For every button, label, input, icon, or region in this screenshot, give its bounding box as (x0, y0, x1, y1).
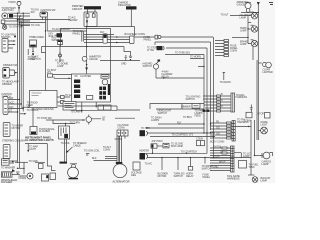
wire from C100 right (134, 36, 213, 38)
svg-text:RLY: RLY (177, 121, 182, 124)
wire jog y123.5 (53, 120, 75, 124)
svg-text:LIGHT: LIGHT (261, 124, 268, 127)
svg-text:SWITCH: SWITCH (158, 112, 168, 115)
relay K1 (17, 2, 21, 6)
svg-text:LAMP: LAMP (240, 43, 247, 46)
wire y54 (165, 54, 204, 56)
alt wires (105, 157, 117, 159)
cluster feed wire (86, 27, 88, 81)
connector stack0 (203, 93, 235, 112)
drop x96 (95, 102, 97, 108)
wire a (53, 74, 72, 76)
wire drop (155, 69, 157, 78)
svg-text:CONN: CONN (19, 176, 27, 180)
svg-text:REG: REG (131, 174, 136, 177)
right edge mark (269, 3, 273, 5)
drop x82 (81, 102, 83, 112)
arrow junction (18, 7, 20, 10)
svg-text:WIPER: WIPER (52, 39, 60, 42)
bus2 (206, 48, 208, 154)
wire y39.5 (84, 39, 130, 41)
wire below cluster (58, 105, 117, 107)
wire dashes right of F (92, 117, 135, 120)
arrow (12, 169, 15, 172)
svg-text:TO WASHER: TO WASHER (1, 166, 15, 169)
svg-text:CONN: CONN (103, 149, 110, 152)
svg-text:CIRCUIT: CIRCUIT (72, 7, 83, 11)
diode symbol (85, 68, 88, 71)
bus y26 (61, 28, 111, 30)
svg-text:TO TURN SIG: TO TURN SIG (175, 52, 190, 55)
tick (181, 104, 183, 109)
connector stackA (210, 120, 235, 141)
wire y157.6 long (147, 157, 251, 159)
wire leg3 (46, 17, 48, 31)
stub (248, 22, 251, 24)
M1 pins (57, 96, 70, 104)
connector bar J2 (126, 6, 137, 9)
bus3 (210, 42, 212, 130)
stub mark (220, 73, 231, 85)
wire y78 (156, 77, 204, 79)
radio box (63, 102, 76, 111)
svg-text:TO BUS: TO BUS (183, 116, 192, 119)
connector C3 (3, 97, 8, 115)
bus y24 (87, 26, 135, 28)
svg-text:TO TURN: TO TURN (70, 122, 81, 125)
node dots (17, 13, 24, 25)
svg-text:FEED: FEED (195, 114, 202, 117)
lamp L3 (247, 37, 257, 47)
small box (39, 164, 44, 169)
stackB right tie (234, 153, 251, 159)
svg-text:LAMP: LAMP (57, 65, 64, 68)
svg-text:PANEL: PANEL (73, 33, 81, 36)
collar (116, 162, 123, 164)
small box right (265, 113, 271, 119)
svg-text:MOTOR: MOTOR (158, 175, 167, 178)
svg-text:TO IGN COIL: TO IGN COIL (84, 149, 100, 153)
node dots ign (17, 19, 22, 26)
wire y45.2 (42, 29, 125, 47)
svg-text:TANK: TANK (249, 166, 256, 169)
svg-text:R: R (221, 105, 223, 108)
stackB pin labels (213, 145, 226, 168)
stair boxes (42, 173, 56, 181)
ground sym (16, 172, 19, 174)
svg-text:DIMMER: DIMMER (2, 83, 12, 86)
wire y48 (166, 47, 207, 49)
wire (21, 106, 28, 108)
svg-text:CONN: CONN (118, 126, 125, 129)
wire run y25.4 (21, 24, 30, 26)
svg-text:HEATER: HEATER (68, 19, 78, 22)
arrowheads (116, 36, 118, 43)
bracket connector (82, 32, 84, 42)
wire y126 (158, 123, 204, 125)
ammeter A (245, 3, 251, 9)
svg-text:WASHER: WASHER (1, 180, 12, 183)
svg-text:FLASHER: FLASHER (39, 130, 50, 133)
hazard switch (153, 60, 160, 70)
svg-text:LAMPS: LAMPS (151, 119, 159, 122)
body label dark (227, 174, 240, 181)
arrow mark (86, 26, 87, 27)
wire run y19.6 (18, 19, 71, 21)
svg-text:RH TAIL: RH TAIL (213, 145, 222, 148)
svg-text:MOTOR: MOTOR (12, 127, 21, 130)
node (152, 153, 187, 154)
svg-text:CLUSTER: CLUSTER (80, 75, 91, 78)
arrow on y78 (163, 77, 165, 79)
svg-text:SWITCH: SWITCH (186, 98, 196, 101)
svg-text:BKUP: BKUP (219, 160, 226, 163)
svg-text:BAT: BAT (9, 97, 14, 100)
svg-text:LAMP: LAMP (240, 30, 247, 33)
wire drop x19.4 (18, 16, 20, 169)
top right small box (196, 138, 205, 146)
svg-text:RELAY: RELAY (162, 76, 170, 79)
cluster upper box (88, 9, 96, 12)
top right box (101, 75, 109, 78)
svg-text:STEERING COLUMN: STEERING COLUMN (2, 140, 25, 143)
svg-text:CONN: CONN (196, 138, 203, 141)
svg-text:LAMP: LAMP (261, 179, 268, 182)
wire run y31 (47, 30, 86, 32)
svg-text:PK: PK (216, 120, 220, 123)
svg-text:TO COIL: TO COIL (31, 24, 41, 27)
wires x251 x254 (251, 120, 255, 175)
connector C1 (2, 39, 8, 53)
tick (248, 174, 255, 176)
wire (247, 9, 250, 13)
regulator box (131, 162, 142, 177)
wire y60.5 (100, 60, 140, 62)
corner (154, 42, 156, 45)
fuse labels (230, 45, 238, 53)
wire from L3 down (252, 47, 254, 60)
leg J2 (130, 10, 132, 27)
wire b (54, 77, 72, 79)
svg-text:LAMP: LAMP (240, 16, 247, 19)
ignition switch S1 (40, 12, 48, 17)
turn signal flasher box (30, 108, 37, 135)
fuse marks inside (86, 12, 95, 17)
ground wires (15, 160, 45, 163)
ignition sw feed circle (2, 25, 6, 29)
inline relay (100, 31, 107, 43)
horn button (24, 173, 33, 179)
node (59, 54, 62, 57)
connector stackB (210, 146, 234, 172)
svg-text:SWITCH: SWITCH (202, 167, 212, 170)
drop4 (204, 158, 206, 164)
svg-text:SW.: SW. (31, 11, 36, 14)
fuse stack L (74, 76, 80, 98)
cargo lamp (254, 152, 273, 159)
drop1 (161, 158, 163, 170)
wire (2, 23, 30, 25)
wire (230, 15, 251, 17)
horn bulb nub (70, 164, 77, 169)
svg-text:HORN: HORN (9, 1, 16, 4)
heater blob upper (140, 130, 148, 136)
dome light (258, 127, 267, 134)
washer pump (2, 172, 21, 177)
wire stub (27, 49, 29, 55)
svg-text:FEED: FEED (27, 104, 34, 107)
license box (239, 161, 247, 169)
ashtray lamp box (151, 144, 163, 148)
wire y136.6 (150, 136, 215, 138)
svg-text:DIMMER: DIMMER (181, 106, 191, 109)
pin wires C3 (8, 100, 23, 113)
lamp sym (250, 105, 253, 110)
wire y37 (84, 36, 130, 38)
node (27, 106, 29, 108)
feed box (59, 126, 70, 139)
nodes (203, 123, 211, 124)
battery stud B (2, 13, 8, 19)
wiper sw box (58, 40, 63, 45)
connector bar J1 (84, 6, 101, 9)
svg-text:LAMP: LAMP (262, 162, 269, 166)
wire y128 (146, 127, 204, 129)
cigar horn sym (258, 62, 271, 68)
wire (18, 6, 20, 14)
wire leg1 (42, 17, 44, 20)
alternator G1 (113, 164, 127, 178)
wire drop (152, 148, 154, 153)
text dark (84, 149, 100, 156)
svg-text:HEATER: HEATER (140, 150, 150, 153)
wire v (247, 16, 249, 37)
box M1 (30, 91, 58, 108)
svg-text:TO COURTESY: TO COURTESY (181, 150, 198, 153)
svg-text:PANEL: PANEL (203, 176, 211, 179)
svg-text:CONN: CONN (230, 50, 237, 53)
nodes C3 (17, 99, 24, 113)
left connector C5 (3, 123, 10, 137)
horn H1 (68, 167, 79, 178)
node (213, 136, 214, 137)
connector C100 (130, 36, 135, 44)
wire y12.4 (241, 11, 258, 13)
svg-text:RLY: RLY (100, 31, 105, 34)
glovebox lamp (163, 143, 169, 148)
svg-text:HARNESS: HARNESS (237, 121, 249, 124)
label dark (1, 178, 17, 184)
left connector C2 (3, 68, 10, 79)
stub box (244, 109, 252, 123)
feed arrow (257, 2, 260, 12)
node (65, 123, 66, 124)
svg-text:LIGHT: LIGHT (29, 148, 36, 151)
drop3 (188, 158, 192, 171)
wire y107 (156, 108, 204, 110)
svg-text:SWITCH: SWITCH (174, 175, 184, 178)
right bus wires (203, 55, 205, 134)
horn stem (60, 139, 68, 164)
wire y37.4 (232, 36, 248, 38)
grid connector C4 (117, 130, 128, 136)
bus4 (213, 37, 215, 158)
wire y101 (150, 104, 204, 109)
svg-text:LT SW: LT SW (147, 49, 155, 52)
dark label block (25, 136, 54, 143)
drop from bus (111, 27, 135, 75)
nodes on y157.6 (161, 157, 214, 158)
lamp L1 (251, 12, 258, 19)
oil pressure sender (30, 40, 37, 47)
dash lamp sym (125, 56, 128, 61)
horn base (69, 178, 79, 179)
small boxes (203, 110, 210, 112)
wire stub2 (59, 52, 61, 62)
wire y110 long (72, 109, 117, 111)
drop2 (177, 158, 179, 170)
svg-text:PANEL: PANEL (144, 39, 152, 42)
capacitor C (129, 56, 132, 60)
starter relay box (1, 20, 5, 23)
svg-text:HARNESS: HARNESS (227, 177, 240, 181)
svg-text:BODY CONN: BODY CONN (210, 141, 224, 144)
speedo conn box (98, 105, 111, 110)
node (86, 64, 88, 66)
drop to capacitor (124, 47, 131, 57)
SEC2 (2, 29, 213, 87)
svg-text:TO HTR: TO HTR (141, 127, 150, 130)
label4 (202, 165, 214, 179)
wire y42.5 (84, 42, 130, 44)
inline fuse (155, 35, 161, 39)
arrow (69, 78, 71, 80)
svg-text:G: G (221, 99, 223, 102)
nodes y130.5 (203, 132, 211, 133)
arrow drop (27, 144, 29, 153)
wire drop x21.2 (20, 21, 22, 107)
wire run y22.6 (19, 22, 45, 24)
svg-text:ACC: ACC (9, 101, 14, 104)
ground tie (17, 162, 25, 174)
ammeter circle (82, 56, 87, 61)
diag arrow (66, 147, 73, 153)
wire x257 pair (256, 60, 258, 140)
wire bus A (8, 12, 30, 14)
svg-text:TO STOP SW: TO STOP SW (37, 117, 52, 120)
wire (59, 45, 61, 55)
instrument cluster box U1 (72, 74, 111, 102)
wire y42 right (155, 41, 211, 43)
svg-text:TO LAMPS: TO LAMPS (71, 111, 83, 114)
alt stems (117, 136, 120, 164)
flasher circle F (46, 115, 92, 125)
node (45, 30, 46, 31)
svg-text:JUNCTION: JUNCTION (2, 9, 14, 12)
wire leg2 (45, 17, 47, 23)
wire drop x47 (47, 144, 55, 171)
node (81, 110, 82, 111)
node (32, 51, 34, 53)
wire y160.5 (94, 160, 118, 162)
reg feed (65, 124, 67, 131)
labels left of lamp (249, 164, 260, 169)
pin labels (9, 97, 14, 113)
wire drop x45.5 (45, 23, 47, 90)
wires C2 (9, 70, 17, 76)
lamp L2 (247, 25, 257, 32)
buzzer blob (55, 33, 63, 37)
svg-text:DIMMER SW: DIMMER SW (3, 64, 18, 67)
bracket box (48, 74, 53, 77)
wire y18.3 (7, 17, 23, 19)
wire drop x23.2 (22, 13, 24, 111)
wire y153.3 (145, 152, 207, 154)
SEC4 (1, 1, 273, 184)
nodes (247, 12, 259, 13)
fuse block stub rows (215, 40, 229, 57)
svg-text:ILLUMINATION LIGHTS: ILLUMINATION LIGHTS (25, 138, 54, 142)
arrow (15, 72, 17, 74)
svg-text:IGNITION SW.: IGNITION SW. (41, 9, 57, 12)
node2 (96, 105, 97, 106)
svg-text:TO COIL: TO COIL (61, 142, 71, 145)
feed arrow inside (86, 17, 88, 26)
svg-text:LIGHTER: LIGHTER (263, 71, 273, 74)
corner (117, 106, 140, 110)
svg-text:TO RADIO: TO RADIO (220, 81, 231, 84)
resistor box (192, 104, 200, 109)
node (235, 126, 251, 127)
wire (32, 47, 34, 52)
fusible link box (9, 14, 13, 18)
svg-text:CABLE: CABLE (73, 145, 81, 148)
wire (2, 20, 30, 22)
heater blob (140, 153, 148, 160)
svg-text:SWITCH: SWITCH (143, 65, 153, 68)
svg-text:BLK: BLK (92, 157, 97, 160)
dark gnd text (19, 174, 27, 180)
wire bus B (13, 15, 30, 17)
svg-text:HARNESS: HARNESS (236, 96, 248, 99)
SEC1 (17, 1, 137, 90)
svg-text:GAUGE: GAUGE (237, 3, 246, 6)
svg-text:ALTERNATOR: ALTERNATOR (113, 180, 130, 184)
wire x258 long (257, 12, 259, 140)
node (14, 36, 16, 38)
svg-text:BLOWER: BLOWER (34, 36, 45, 39)
svg-text:OG: OG (216, 126, 220, 129)
svg-text:GN: GN (216, 132, 220, 135)
svg-text:LH: LH (220, 150, 223, 153)
label col (195, 110, 205, 118)
svg-text:GRD: GRD (213, 165, 219, 168)
wiper conn (2, 159, 18, 165)
gauge circle inside (102, 79, 108, 85)
wire y130.5 (147, 132, 215, 134)
wire y58.4 (190, 58, 204, 66)
svg-text:TO ALT: TO ALT (221, 13, 229, 16)
left connector C6 (3, 145, 10, 159)
svg-text:ASH TRAY: ASH TRAY (152, 140, 164, 143)
svg-text:WIPER: WIPER (28, 58, 36, 61)
C4 legs (119, 136, 125, 165)
wire pins C1 (8, 41, 15, 48)
svg-text:RELAY: RELAY (186, 175, 194, 178)
lamp rect (87, 96, 93, 100)
cargo label (262, 160, 272, 167)
ground lamp (252, 177, 258, 183)
